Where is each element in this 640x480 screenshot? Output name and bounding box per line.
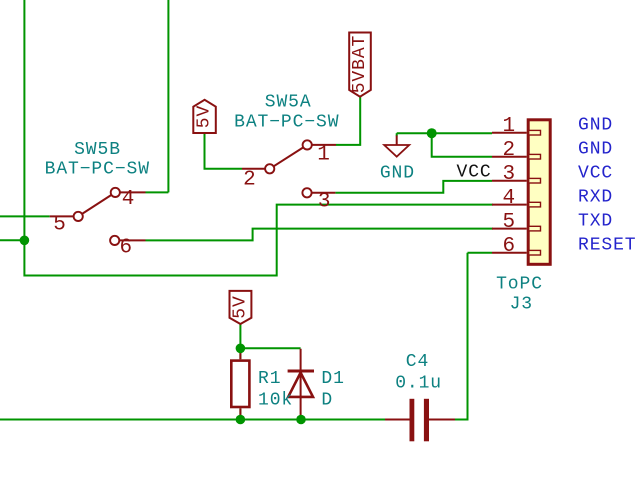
svg-text:2: 2 — [243, 169, 256, 192]
svg-text:SW5B: SW5B — [74, 140, 121, 160]
svg-text:1: 1 — [317, 144, 330, 167]
svg-text:RESET: RESET — [578, 235, 637, 255]
svg-text:D1: D1 — [321, 369, 344, 389]
svg-text:R1: R1 — [258, 369, 281, 389]
svg-text:TXD: TXD — [578, 211, 613, 231]
svg-text:BAT−PC−SW: BAT−PC−SW — [45, 160, 150, 180]
svg-text:5: 5 — [53, 214, 66, 237]
svg-text:J3: J3 — [510, 295, 533, 315]
svg-text:RXD: RXD — [578, 187, 613, 207]
svg-text:BAT−PC−SW: BAT−PC−SW — [234, 113, 339, 133]
svg-text:4: 4 — [502, 187, 515, 210]
svg-text:6: 6 — [119, 237, 132, 260]
svg-text:6: 6 — [502, 235, 515, 258]
svg-text:GND: GND — [578, 139, 613, 159]
svg-text:0.1u: 0.1u — [395, 374, 442, 394]
svg-text:3: 3 — [502, 163, 515, 186]
svg-text:5: 5 — [502, 211, 515, 234]
svg-text:10k: 10k — [258, 390, 293, 410]
svg-text:GND: GND — [380, 164, 415, 184]
svg-text:C4: C4 — [406, 352, 429, 372]
svg-text:VCC: VCC — [578, 163, 613, 183]
svg-text:SW5A: SW5A — [265, 92, 312, 112]
svg-text:4: 4 — [122, 188, 135, 211]
svg-text:5VBAT: 5VBAT — [350, 35, 370, 94]
svg-text:D: D — [321, 390, 333, 410]
svg-text:1: 1 — [502, 115, 515, 138]
svg-text:VCC: VCC — [457, 163, 492, 183]
svg-text:GND: GND — [578, 115, 613, 135]
svg-text:2: 2 — [502, 139, 515, 162]
svg-text:ToPC: ToPC — [496, 274, 543, 294]
svg-text:3: 3 — [318, 191, 331, 214]
svg-text:5V: 5V — [230, 295, 250, 318]
svg-text:5V: 5V — [195, 105, 215, 128]
